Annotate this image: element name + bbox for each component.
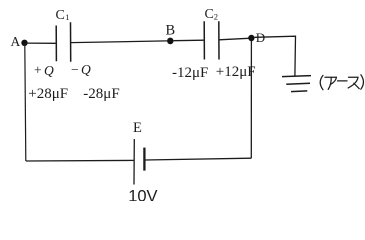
svg-text:B: B bbox=[166, 23, 176, 39]
capacitor C2 bbox=[204, 21, 219, 59]
svg-text:-12μF: -12μF bbox=[172, 65, 208, 81]
svg-text:Q: Q bbox=[44, 63, 54, 78]
svg-text:-28μF: -28μF bbox=[83, 86, 119, 102]
wire B to C2 left plate bbox=[174, 39, 204, 42]
battery value 10V bbox=[128, 187, 157, 205]
value label -28uF bbox=[83, 86, 119, 102]
svg-text:−: − bbox=[71, 62, 79, 77]
charge label -Q bbox=[71, 62, 91, 77]
battery label E bbox=[133, 120, 142, 136]
svg-text:C: C bbox=[205, 7, 214, 22]
charge label +Q bbox=[34, 63, 54, 78]
svg-text:2: 2 bbox=[214, 11, 218, 21]
wire C1 right plate to node B bbox=[71, 41, 167, 43]
label C1 bbox=[56, 8, 70, 23]
value label -12uF bbox=[172, 65, 208, 81]
ground (earth) symbol bbox=[282, 76, 311, 92]
wire bottom right (corner to battery + plate) bbox=[145, 158, 251, 160]
wire battery - plate to bottom-left corner bbox=[26, 159, 135, 162]
svg-text:+: + bbox=[34, 63, 42, 78]
svg-text:C: C bbox=[56, 8, 65, 23]
node D label bbox=[256, 30, 265, 45]
wire D to top-right corner bbox=[255, 36, 296, 76]
svg-text:1: 1 bbox=[65, 12, 69, 22]
node A label bbox=[11, 34, 21, 49]
battery E bbox=[134, 139, 144, 185]
node B bbox=[167, 38, 174, 45]
wire bottom-left corner up to node A bbox=[25, 44, 26, 161]
svg-text:+28μF: +28μF bbox=[28, 86, 68, 102]
node A bbox=[21, 40, 27, 46]
wire node D down to bottom-right corner bbox=[250, 41, 252, 158]
svg-text:A: A bbox=[11, 34, 21, 49]
svg-text:+12μF: +12μF bbox=[216, 64, 256, 80]
node D bbox=[248, 35, 254, 41]
wire A to C1 left plate bbox=[26, 42, 56, 44]
svg-text:E: E bbox=[133, 120, 142, 136]
ground label (アース) drawn as strokes bbox=[320, 75, 363, 90]
svg-text:10V: 10V bbox=[128, 187, 157, 201]
capacitor C1 bbox=[56, 22, 70, 61]
value label +12uF bbox=[216, 64, 256, 80]
node B label bbox=[166, 23, 176, 39]
svg-text:Q: Q bbox=[81, 62, 91, 77]
value label +28uF bbox=[28, 86, 68, 102]
label C2 bbox=[205, 7, 219, 22]
wire C2 right plate to node D bbox=[219, 38, 249, 40]
